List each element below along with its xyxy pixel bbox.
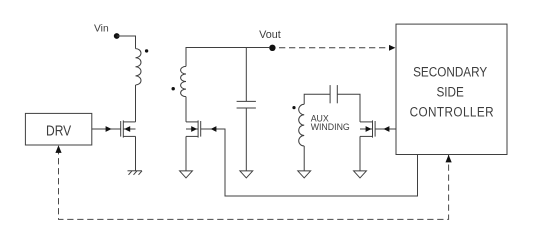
transformer T1 secondary winding <box>181 66 186 96</box>
wire Q3 source to ground <box>359 136 361 171</box>
block secondary side controller <box>396 24 507 154</box>
dashed feedback wire Vout to controller <box>279 45 395 51</box>
transistor Q2 <box>186 120 201 137</box>
wire DRV output to Q1 gate <box>92 126 121 132</box>
svg-text:DRV: DRV <box>46 122 71 138</box>
node Vin <box>114 33 120 39</box>
wire controller to Q3 gate <box>375 126 396 132</box>
wire Vin node to T1 primary top <box>117 36 136 49</box>
svg-text:WINDING: WINDING <box>311 122 350 132</box>
aux phase dot <box>292 106 295 109</box>
capacitor C1 <box>237 101 256 108</box>
wire Q2 source to ground <box>185 136 187 171</box>
wire C2 to Q3 drain <box>337 94 360 122</box>
node Vout <box>269 45 275 51</box>
wire Q2 gate to controller bottom (sync drive) <box>201 126 418 196</box>
ground <box>180 171 193 178</box>
transistor Q3 <box>360 120 375 137</box>
svg-text:Vin: Vin <box>94 24 109 35</box>
ground <box>240 171 253 178</box>
primary phase dot <box>145 49 148 52</box>
wire aux winding top to C2 <box>304 94 330 104</box>
ground <box>354 171 367 178</box>
capacitor C2 <box>330 85 337 103</box>
wire T1 secondary bottom to Q2 drain <box>185 97 187 122</box>
wire T1 secondary top to Vout node <box>186 48 269 67</box>
svg-text:SECONDARY SIDE: SECONDARY SIDE CONTROLLER <box>410 64 494 120</box>
transformer T1 primary winding <box>136 49 142 85</box>
wire output capacitor branch from Vout rail <box>245 48 247 102</box>
secondary phase dot <box>172 87 175 90</box>
chassis ground <box>128 171 143 175</box>
dashed feedback wire controller bottom to DRV <box>55 145 451 219</box>
transistor Q1 <box>121 120 136 137</box>
svg-text:Vout: Vout <box>259 29 281 41</box>
wire aux winding bottom to ground <box>303 146 305 171</box>
wire Q1 source to chassis ground <box>135 136 137 170</box>
aux winding <box>299 104 305 146</box>
ground <box>298 171 311 178</box>
block DRV <box>25 113 91 145</box>
wire C1 to ground <box>245 108 247 171</box>
wire T1 primary bottom to Q1 drain <box>135 85 137 122</box>
label AUX WINDING <box>311 113 350 132</box>
